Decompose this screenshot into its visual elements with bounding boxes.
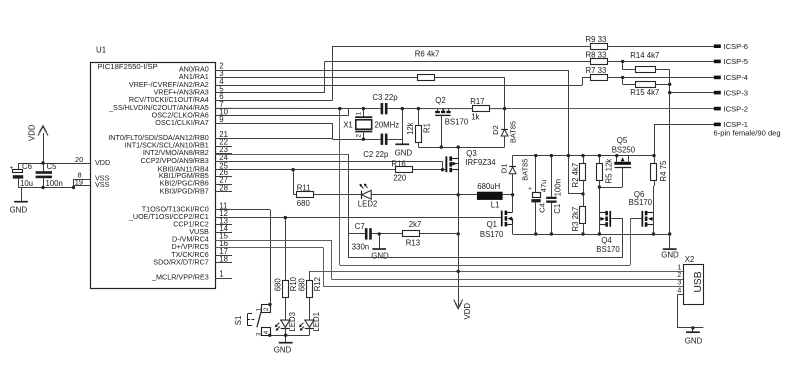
wire R5 bottom / Q5 gate / Q4 drain node bbox=[599, 168, 622, 213]
svg-text:2k7: 2k7 bbox=[409, 220, 422, 229]
svg-text:PIC18F2550-I/SP: PIC18F2550-I/SP bbox=[98, 62, 158, 71]
resistor R2 4k7 vertical bbox=[571, 156, 586, 194]
svg-text:R11: R11 bbox=[297, 183, 311, 192]
wire R6 net vertical down to R17 node bbox=[504, 78, 506, 109]
svg-text:C4: C4 bbox=[538, 203, 547, 213]
ground symbol below C7 bbox=[371, 234, 389, 260]
svg-text:C3 22p: C3 22p bbox=[372, 93, 398, 102]
svg-text:KBI3/PGD/RB7: KBI3/PGD/RB7 bbox=[160, 186, 209, 195]
svg-text:ICSP-5: ICSP-5 bbox=[724, 57, 748, 66]
IC U1 VSS pin stubs (pins 8,19) and joining wire bbox=[74, 179, 91, 188]
wire R1/Q2-gate node row bbox=[418, 147, 504, 149]
wire AN0 feedback vertical to divider midpoint bbox=[568, 70, 583, 194]
svg-text:X1: X1 bbox=[343, 120, 353, 129]
ICSP pin labels bbox=[724, 42, 748, 129]
wire ICSP-2 row from R17 node bbox=[505, 108, 714, 110]
svg-text:C6: C6 bbox=[22, 162, 32, 171]
svg-text:OSC1/CLKI/RA7: OSC1/CLKI/RA7 bbox=[155, 118, 209, 127]
capacitor C1 100n bbox=[546, 156, 562, 234]
svg-text:3: 3 bbox=[677, 280, 681, 287]
wire L1 right to switch node bbox=[503, 194, 513, 196]
transistor Q5 BS250 bbox=[612, 136, 636, 167]
svg-text:GND: GND bbox=[685, 337, 703, 346]
svg-text:GND: GND bbox=[661, 251, 679, 260]
LED LED2 bbox=[313, 184, 477, 209]
svg-text:680: 680 bbox=[273, 278, 282, 292]
svg-text:ICSP-2: ICSP-2 bbox=[724, 104, 748, 113]
resistor R16 220 bbox=[391, 159, 412, 182]
crystal X1 pin numbers 1 and 2 bbox=[356, 111, 363, 137]
svg-text:D2: D2 bbox=[491, 125, 500, 135]
wire Q6-gate net: tap on main line down and across (gray bus) bbox=[340, 109, 631, 266]
svg-text:BS250: BS250 bbox=[612, 146, 636, 155]
IC U1 right-side pin numbers bbox=[219, 62, 228, 279]
svg-text:4: 4 bbox=[263, 330, 270, 334]
wire RC0 row jog down to switch S1 bbox=[216, 210, 271, 305]
capacitor C4 47u electrolytic bbox=[528, 156, 548, 234]
resistor R1 12k vertical bbox=[406, 109, 432, 148]
svg-text:680: 680 bbox=[297, 278, 306, 292]
svg-text:47u: 47u bbox=[539, 180, 548, 193]
capacitor C7 330n bbox=[352, 222, 372, 251]
svg-text:R7 33: R7 33 bbox=[586, 66, 607, 75]
svg-text:R13: R13 bbox=[406, 239, 420, 248]
wire OSC1/RA7 row jog down to crystal bottom bbox=[216, 124, 333, 140]
svg-text:C1: C1 bbox=[553, 204, 562, 214]
resistor R10 680 vertical bbox=[273, 276, 298, 320]
wire RA0/AN0 row to feedback divider bbox=[216, 70, 569, 72]
svg-text:R14 4k7: R14 4k7 bbox=[630, 51, 659, 60]
resistor R15 4k7 bbox=[623, 77, 670, 97]
LED LED3 bbox=[275, 312, 297, 335]
junction dots main bbox=[268, 107, 695, 337]
svg-text:C5: C5 bbox=[47, 162, 58, 171]
svg-text:100n: 100n bbox=[554, 179, 563, 196]
ground symbol right of Q6 bbox=[661, 234, 679, 260]
resistor R7 33 bbox=[586, 66, 608, 80]
resistor R17 1k bbox=[470, 97, 489, 122]
svg-text:U1: U1 bbox=[96, 46, 106, 55]
wire LED ground rail bbox=[270, 335, 310, 337]
wire RA3 row jog up to R8 row bbox=[216, 61, 591, 93]
resistor R14 4k7 bbox=[623, 51, 670, 73]
resistor R12 680 vertical bbox=[297, 271, 322, 320]
svg-text:220: 220 bbox=[393, 174, 407, 183]
ground symbol below LED3 bbox=[274, 335, 293, 354]
svg-text:USB: USB bbox=[693, 271, 704, 292]
svg-text:20MHz: 20MHz bbox=[375, 120, 400, 129]
transistor Q4 BS170 bbox=[596, 211, 623, 254]
resistor R8 33 bbox=[586, 50, 608, 64]
wire R14/R15 ground vertical to GND rail bbox=[669, 70, 671, 234]
transistor Q6 BS170 bbox=[629, 190, 654, 234]
wire ICSP-1 row and drop to VPP rail bbox=[654, 124, 714, 155]
svg-text:BAT85: BAT85 bbox=[509, 121, 518, 143]
resistor R9 33 bbox=[586, 35, 608, 49]
ground symbol below C6 bbox=[10, 188, 28, 215]
svg-text:9: 9 bbox=[219, 115, 223, 124]
resistor R6 4k7 bbox=[415, 50, 440, 81]
svg-text:1: 1 bbox=[677, 264, 681, 271]
svg-text:6-pin female/90 deg: 6-pin female/90 deg bbox=[714, 129, 781, 138]
IC U1 PIC18F2550-I/SP body bbox=[91, 46, 216, 289]
wire RA2 row to R7 jog bbox=[216, 77, 591, 85]
svg-text:D1: D1 bbox=[500, 164, 509, 174]
diode D1 BAT85 bbox=[500, 156, 530, 195]
svg-text:Q1: Q1 bbox=[487, 220, 497, 229]
resistor R4 75 vertical bbox=[651, 156, 669, 213]
ICSP connector terminals bbox=[714, 44, 721, 126]
diode D2 BAT85 bbox=[491, 109, 518, 148]
svg-text:BAT85: BAT85 bbox=[520, 159, 529, 181]
inductor L1 680uH bbox=[477, 182, 503, 209]
wire C7/R13 row from RB2 vertical to VDD bus bbox=[348, 233, 458, 235]
svg-text:VSS: VSS bbox=[95, 180, 110, 189]
capacitor C5 100n bbox=[36, 162, 63, 188]
resistor R11 680 bbox=[293, 170, 313, 208]
power VDD supply arrow (left) bbox=[28, 124, 49, 163]
transistor Q1 BS170 bbox=[480, 195, 513, 239]
capacitor C6 10u electrolytic bbox=[10, 162, 34, 188]
svg-text:C7: C7 bbox=[355, 222, 365, 231]
wire RC1/CCP2 row to Q1 gate bbox=[216, 217, 501, 219]
svg-text:_MCLR/VPP/RE3: _MCLR/VPP/RE3 bbox=[151, 273, 209, 282]
junction dots left power block bbox=[41, 161, 75, 189]
svg-text:Q3: Q3 bbox=[466, 149, 476, 158]
label 6-pin female/90 deg bbox=[714, 129, 781, 138]
IC U1 right-side pin names bbox=[108, 65, 209, 282]
svg-text:1: 1 bbox=[356, 111, 363, 115]
svg-text:IRF9Z34: IRF9Z34 bbox=[465, 158, 496, 167]
svg-text:LED2: LED2 bbox=[358, 200, 378, 209]
svg-text:GND: GND bbox=[395, 148, 413, 157]
svg-text:R3 2k7: R3 2k7 bbox=[571, 207, 580, 232]
svg-text:R17: R17 bbox=[470, 97, 484, 106]
wire VPP rail (boost output) bbox=[513, 155, 654, 157]
svg-text:+: + bbox=[10, 164, 14, 171]
IC U1 left pin numbers 20 8 19 bbox=[75, 155, 83, 187]
wire RA1 row through R6 to vertical bus bbox=[216, 77, 505, 79]
svg-text:BS170: BS170 bbox=[596, 245, 620, 254]
capacitor C3 22p bbox=[372, 93, 398, 114]
wire X2 pin4 to GND bbox=[678, 294, 704, 328]
svg-text:BS170: BS170 bbox=[445, 118, 469, 127]
svg-text:C2 22p: C2 22p bbox=[363, 150, 389, 159]
svg-text:VDD: VDD bbox=[463, 303, 472, 320]
LED LED1 bbox=[299, 312, 321, 335]
svg-text:680uH: 680uH bbox=[477, 182, 500, 191]
wire GND rail bottom (boost section) bbox=[513, 234, 670, 236]
wire VBUS +5V row from X2 pin1 (gray) bbox=[309, 271, 683, 273]
svg-text:680: 680 bbox=[297, 199, 311, 208]
svg-text:R16: R16 bbox=[391, 159, 405, 168]
wire Q3 source up to D2/R1 node bbox=[458, 147, 460, 158]
wire VDD vertical bus (Q3 drain / L1 node down to VDD arrow) bbox=[458, 158, 460, 306]
svg-text:VDD: VDD bbox=[95, 158, 110, 167]
transistor Q3 IRF9Z34 bbox=[445, 149, 496, 172]
svg-text:Q5: Q5 bbox=[617, 136, 628, 145]
svg-text:R15 4k7: R15 4k7 bbox=[630, 88, 659, 97]
svg-text:BS170: BS170 bbox=[480, 230, 504, 239]
svg-text:330n: 330n bbox=[352, 242, 369, 251]
transistor Q2 BS170 bbox=[435, 96, 469, 147]
svg-text:L1: L1 bbox=[491, 200, 500, 209]
IC U1 left-side pin names VDD VSS VSS bbox=[95, 158, 110, 189]
USB connector X2 bbox=[684, 255, 705, 305]
svg-text:20: 20 bbox=[75, 155, 83, 164]
ground symbol for crystal caps bbox=[395, 109, 413, 158]
svg-text:100n: 100n bbox=[46, 179, 63, 188]
svg-text:10u: 10u bbox=[20, 179, 33, 188]
ground symbol below X2 bbox=[685, 328, 703, 346]
svg-text:Q2: Q2 bbox=[435, 96, 445, 105]
svg-text:1: 1 bbox=[219, 270, 223, 279]
wire crystal bottom row (RB0 row) to GND drop bbox=[216, 139, 403, 140]
svg-text:R4 75: R4 75 bbox=[659, 160, 668, 181]
svg-text:2: 2 bbox=[677, 272, 681, 279]
wire GND rail below C5/C6 to VSS bbox=[18, 187, 74, 189]
svg-text:1: 1 bbox=[256, 308, 263, 312]
wire RB2 row jog down to Q4 gate bbox=[216, 154, 623, 258]
svg-text:ICSP-6: ICSP-6 bbox=[724, 42, 748, 51]
wire RB4 row through R16 to Q3 gate bbox=[216, 169, 446, 171]
wire R9 to ICSP-6 terminal bbox=[607, 46, 713, 48]
svg-text:R6 4k7: R6 4k7 bbox=[415, 50, 440, 59]
svg-text:R1: R1 bbox=[422, 123, 431, 133]
wire RB3 row jog down to Q3 gate bbox=[216, 161, 443, 170]
svg-text:R5 12k: R5 12k bbox=[604, 159, 613, 184]
svg-text:R9 33: R9 33 bbox=[586, 35, 607, 44]
svg-text:S1: S1 bbox=[234, 316, 243, 326]
wire D+ from RC5 to X2 pin3 (gray) bbox=[216, 248, 684, 287]
resistor R13 2k7 bbox=[403, 220, 422, 247]
svg-text:1k: 1k bbox=[471, 113, 479, 122]
wire RA4 row jog up to R9 row bbox=[216, 46, 591, 100]
wire VDD row to IC pin 20 bbox=[18, 163, 91, 165]
svg-text:R2 4k7: R2 4k7 bbox=[571, 163, 580, 188]
svg-text:GND: GND bbox=[371, 251, 389, 260]
svg-text:+: + bbox=[528, 186, 532, 192]
svg-text:LED3: LED3 bbox=[288, 312, 297, 332]
svg-text:ICSP-3: ICSP-3 bbox=[724, 88, 748, 97]
svg-text:BS170: BS170 bbox=[629, 198, 653, 207]
wire RC1 branch down through R10 to LED3 bbox=[285, 218, 287, 281]
crystal X1 20MHz bbox=[343, 109, 399, 140]
svg-text:ICSP-4: ICSP-4 bbox=[724, 73, 748, 82]
wire OSC2/RA6 row jog up to crystal top bbox=[216, 109, 349, 116]
svg-text:12k: 12k bbox=[406, 122, 415, 135]
svg-text:3: 3 bbox=[256, 332, 263, 336]
switch S1 bbox=[234, 305, 271, 337]
svg-text:GND: GND bbox=[10, 206, 28, 215]
wire ICSP-3 row bbox=[670, 92, 714, 94]
power VDD arrow pointing down (bottom) bbox=[454, 300, 472, 320]
svg-text:Q4: Q4 bbox=[601, 236, 612, 245]
wire D- from RC4 to X2 pin2 (gray) bbox=[216, 240, 684, 280]
resistor R5 12k vertical bbox=[597, 156, 614, 188]
wire main RA5/ICSP-2 line through crystal C3 R1 Q2 R17 bbox=[216, 107, 505, 109]
wire R8 to ICSP-5 terminal bbox=[607, 61, 713, 63]
svg-text:R12: R12 bbox=[313, 277, 322, 291]
capacitor C2 22p bbox=[363, 134, 389, 159]
svg-text:LED1: LED1 bbox=[312, 312, 321, 332]
svg-text:4: 4 bbox=[677, 287, 681, 294]
junction dots ICSP network bbox=[621, 60, 671, 95]
wire R7 to ICSP-4 terminal bbox=[607, 77, 714, 79]
svg-text:SDO/RX/DT/RC7: SDO/RX/DT/RC7 bbox=[153, 257, 209, 266]
X2 pin stubs and numbers bbox=[677, 264, 683, 294]
svg-text:VDD: VDD bbox=[28, 124, 37, 141]
svg-text:R8 33: R8 33 bbox=[586, 50, 607, 59]
svg-text:X2: X2 bbox=[685, 255, 695, 264]
svg-text:GND: GND bbox=[274, 346, 292, 355]
svg-text:2: 2 bbox=[356, 134, 363, 138]
resistor R3 2k7 vertical bbox=[571, 194, 586, 234]
IC U1 pin stubs (right side pins 2-28) bbox=[216, 71, 233, 279]
svg-text:2: 2 bbox=[263, 307, 270, 311]
